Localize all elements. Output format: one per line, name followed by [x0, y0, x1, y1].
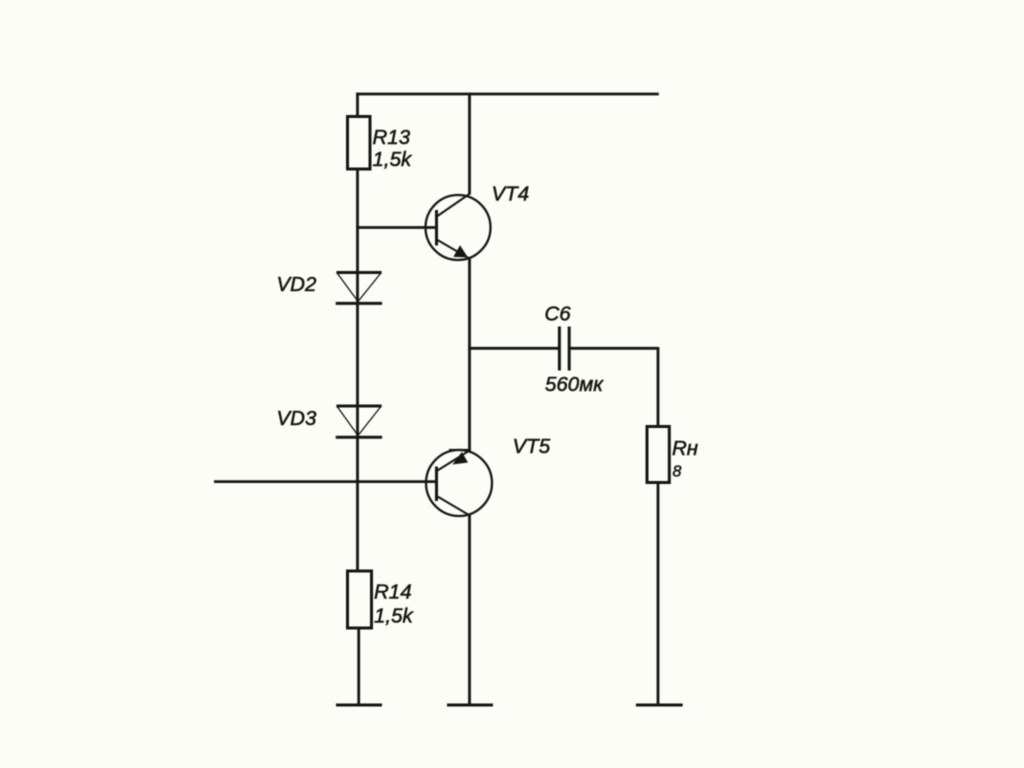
svg-text:VT5: VT5 — [513, 435, 551, 458]
svg-text:VT4: VT4 — [492, 182, 530, 205]
svg-text:C6: C6 — [545, 302, 572, 325]
wire top supply rail — [356, 93, 659, 96]
wire R13 bottom through diode chain to R14 — [356, 169, 359, 572]
wire Rn bottom to ground — [657, 483, 660, 706]
svg-text:R13: R13 — [373, 126, 411, 149]
ground terminal left — [336, 704, 382, 707]
svg-text:R14: R14 — [374, 581, 412, 604]
resistor R14 — [348, 571, 372, 628]
wire from top rail down to R13 — [356, 93, 359, 118]
wire VT4 base from junction — [356, 226, 436, 229]
wire VT5 collector down to ground — [468, 515, 471, 706]
ground terminal middle — [447, 704, 493, 707]
wire R14 bottom to ground — [357, 628, 360, 705]
resistor R13 — [348, 117, 371, 170]
wire VT4 emitter down to VT5 collector (trunk) — [468, 257, 471, 452]
svg-text:1,5k: 1,5k — [374, 605, 414, 628]
svg-text:1,5k: 1,5k — [373, 148, 413, 171]
wire down from C6 to Rn — [657, 347, 660, 428]
svg-text:Rн: Rн — [672, 437, 698, 460]
transistor VT5 — [426, 450, 492, 516]
ground terminal right — [636, 704, 683, 707]
resistor Rn load — [647, 427, 669, 483]
capacitor C6 — [559, 327, 569, 371]
wire output node to C6 left plate — [468, 347, 559, 350]
svg-text:8: 8 — [673, 464, 682, 481]
svg-text:VD2: VD2 — [277, 273, 317, 296]
wire C6 right plate to Rn branch — [569, 347, 658, 350]
wire VT4 collector to top rail — [468, 93, 471, 195]
diode VD2 — [336, 273, 382, 304]
svg-text:560мк: 560мк — [545, 373, 604, 396]
svg-text:VD3: VD3 — [277, 407, 317, 430]
wire input line to VT5 base — [214, 480, 437, 483]
diode VD3 — [336, 406, 382, 437]
transistor VT4 — [426, 194, 491, 261]
